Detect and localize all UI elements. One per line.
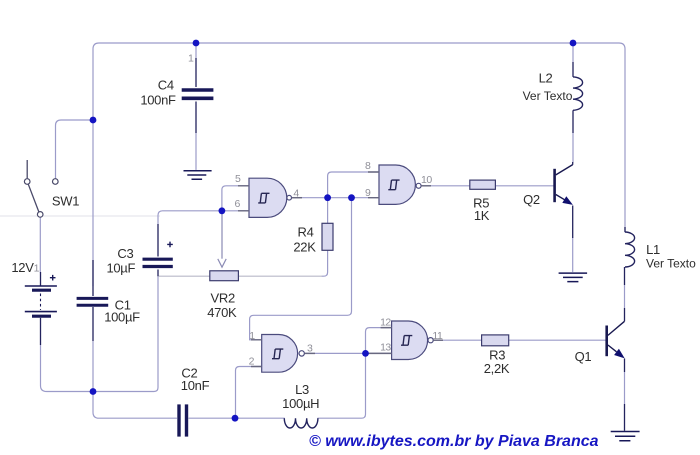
svg-text:3: 3 <box>307 343 313 355</box>
svg-text:4: 4 <box>293 188 299 200</box>
svg-text:C3: C3 <box>117 246 133 261</box>
svg-text:L3: L3 <box>295 382 309 397</box>
svg-text:10: 10 <box>421 174 432 186</box>
svg-text:1: 1 <box>249 330 255 342</box>
svg-text:© www.ibytes.com.br by Piava B: © www.ibytes.com.br by Piava Branca <box>309 433 599 450</box>
svg-text:5: 5 <box>235 173 241 185</box>
svg-text:Q2: Q2 <box>523 192 540 207</box>
svg-text:L1: L1 <box>646 242 660 257</box>
svg-text:Ver Texto: Ver Texto <box>646 257 696 271</box>
svg-text:Q1: Q1 <box>575 349 592 364</box>
svg-text:Ver Texto: Ver Texto <box>523 89 573 103</box>
svg-text:8: 8 <box>365 160 371 172</box>
svg-text:100µH: 100µH <box>282 396 319 411</box>
svg-text:C4: C4 <box>158 78 174 93</box>
svg-text:22K: 22K <box>293 240 316 255</box>
svg-text:470K: 470K <box>207 305 237 320</box>
svg-text:9: 9 <box>365 187 371 199</box>
svg-text:SW1: SW1 <box>52 194 79 209</box>
svg-text:12V: 12V <box>11 260 34 275</box>
svg-text:1K: 1K <box>474 208 490 223</box>
svg-text:13: 13 <box>380 342 391 354</box>
svg-text:L2: L2 <box>539 71 553 86</box>
svg-text:VR2: VR2 <box>211 291 235 306</box>
svg-text:11: 11 <box>432 330 443 342</box>
svg-text:1: 1 <box>34 263 40 275</box>
svg-text:6: 6 <box>235 198 241 210</box>
svg-text:R4: R4 <box>297 225 313 240</box>
svg-text:100nF: 100nF <box>140 93 176 108</box>
svg-text:1: 1 <box>188 53 194 65</box>
svg-text:10µF: 10µF <box>106 261 135 276</box>
svg-text:10nF: 10nF <box>181 378 210 393</box>
svg-text:12: 12 <box>380 317 391 329</box>
svg-text:100µF: 100µF <box>104 310 140 325</box>
svg-text:2,2K: 2,2K <box>484 361 510 376</box>
svg-text:2: 2 <box>249 356 255 368</box>
